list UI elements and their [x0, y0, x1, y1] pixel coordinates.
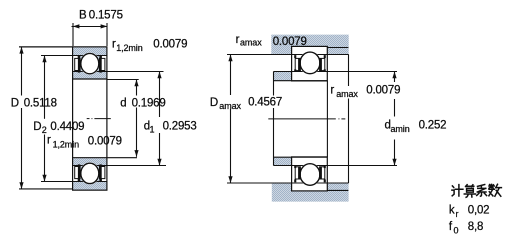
shield top-left: [75, 58, 81, 70]
outer ring bottom band (blue): [73, 182, 106, 190]
inner ring top band (blue): [73, 72, 106, 79]
ball right top: [300, 52, 320, 74]
shield bottom-left: [75, 166, 81, 179]
D2 arrows: [42, 56, 46, 63]
housing shoulder face line right: [348, 55, 350, 87]
svg-text:0.0079: 0.0079: [153, 39, 187, 51]
groove punch right bottom: [299, 163, 321, 186]
svg-text:0.0079: 0.0079: [366, 85, 400, 97]
svg-text:1,2min: 1,2min: [53, 139, 80, 149]
svg-text:r: r: [330, 85, 334, 97]
labels right view: [210, 34, 446, 134]
svg-text:0.5118: 0.5118: [24, 97, 57, 109]
shaft shoulder strip top (blue): [274, 72, 292, 81]
svg-text:D: D: [210, 97, 218, 109]
svg-text:8,8: 8,8: [468, 221, 483, 233]
centerline right: [268, 118, 345, 120]
ring boundary line d1 level bottom: [73, 165, 166, 167]
svg-text:amax: amax: [219, 101, 241, 111]
svg-text:amin: amin: [391, 124, 410, 134]
svg-text:r: r: [456, 209, 459, 219]
算: [464, 185, 475, 198]
svg-text:1: 1: [150, 125, 155, 135]
B dimension line: [72, 26, 108, 28]
svg-text:0.1575: 0.1575: [89, 9, 123, 21]
shield seat nibs top section: [78, 56, 102, 73]
d top extension: [107, 79, 139, 81]
svg-text:r: r: [47, 135, 51, 147]
svg-text:amax: amax: [240, 38, 262, 48]
shield bottom-right: [99, 166, 105, 179]
ring boundary line D2 level top: [73, 55, 107, 57]
housing bore line right of bearing bottom: [327, 189, 348, 191]
long line D_a level top: [227, 54, 349, 56]
bearing top section outline: [292, 46, 328, 81]
D2 bottom extension: [41, 181, 73, 183]
d1 top extension: [108, 71, 164, 73]
D2 dimension line: [44, 56, 46, 119]
svg-text:B: B: [79, 9, 87, 21]
svg-text:0: 0: [454, 226, 459, 236]
shield top-right: [99, 58, 105, 70]
D arrows: [19, 47, 23, 54]
shaft shoulder face line: [273, 72, 275, 96]
ball right bottom: [300, 164, 320, 186]
ring boundary line D2 level bottom: [73, 181, 107, 183]
bearing right face across gap: [326, 81, 328, 158]
d dimension line: [136, 80, 138, 96]
系: [477, 185, 487, 197]
svg-text:0.0079: 0.0079: [273, 36, 307, 48]
ball top: [81, 53, 99, 73]
housing bottom block (blue): [272, 183, 349, 202]
groove punch top: [80, 53, 100, 75]
arrowheads left view: [19, 24, 161, 189]
shield seat nibs bottom section: [78, 164, 102, 181]
svg-text:r: r: [236, 34, 240, 46]
nibs right bottom section: [294, 166, 326, 183]
d1 dimension line: [159, 72, 161, 118]
svg-text:0.252: 0.252: [419, 120, 447, 132]
svg-text:amax: amax: [336, 89, 358, 99]
centerline left: [87, 118, 111, 120]
d1 arrows: [157, 72, 161, 79]
svg-text:1,2min: 1,2min: [116, 43, 143, 53]
B extension tick right: [106, 23, 108, 46]
svg-text:0,02: 0,02: [468, 205, 490, 217]
bore line top section: [73, 78, 107, 80]
bearing outline rect: [73, 47, 107, 190]
svg-text:0.2953: 0.2953: [163, 120, 197, 132]
bore line bottom section right: [274, 156, 328, 158]
B arrows: [73, 24, 80, 28]
long line d_a level top (shoulder+ring+ext): [274, 71, 398, 73]
D dimension line: [21, 47, 23, 96]
bore line bottom section: [73, 157, 137, 159]
ring boundary line d1 level top: [73, 71, 107, 73]
svg-text:d: d: [120, 97, 126, 109]
svg-text:0.4409: 0.4409: [50, 121, 84, 133]
groove punch bottom: [80, 162, 100, 184]
shields right bottom: [295, 167, 300, 179]
d_amin dimension line: [394, 72, 396, 83]
bore line top section right: [274, 80, 328, 82]
housing bore line right of bearing top: [327, 47, 348, 49]
D bottom extension: [19, 188, 73, 190]
svg-text:k: k: [449, 205, 455, 217]
svg-text:0.4567: 0.4567: [248, 97, 282, 109]
svg-text:0.0079: 0.0079: [88, 135, 122, 147]
arrowheads right view: [228, 55, 396, 184]
housing top block (blue): [271, 35, 348, 55]
shaft shoulder strip bottom (blue): [274, 157, 292, 165]
groove punch right top: [299, 51, 321, 74]
long line D_a level bottom: [227, 182, 349, 184]
计算系数 heading (hand-drawn CJK strokes): [452, 184, 502, 197]
svg-text:D: D: [11, 97, 19, 109]
svg-text:2: 2: [42, 125, 47, 135]
B extension tick left: [72, 23, 74, 46]
d arrows: [134, 80, 138, 87]
D_amax dimension line: [230, 55, 232, 96]
long line d_a level bottom: [274, 165, 398, 167]
D top extension: [19, 46, 73, 48]
nibs right top section: [294, 55, 326, 72]
svg-text:0.1969: 0.1969: [132, 97, 166, 109]
计: [452, 185, 463, 196]
labels left view: [11, 9, 197, 149]
shields right top: [295, 58, 300, 70]
bearing bottom section outline: [292, 157, 328, 191]
k_r 0,02: [449, 205, 489, 236]
svg-text:D: D: [33, 121, 41, 133]
outer ring top band (blue): [73, 47, 106, 55]
数: [489, 184, 501, 196]
D2 top extension: [41, 55, 73, 57]
inner ring bottom band (blue): [73, 158, 106, 165]
ball bottom: [81, 163, 99, 183]
